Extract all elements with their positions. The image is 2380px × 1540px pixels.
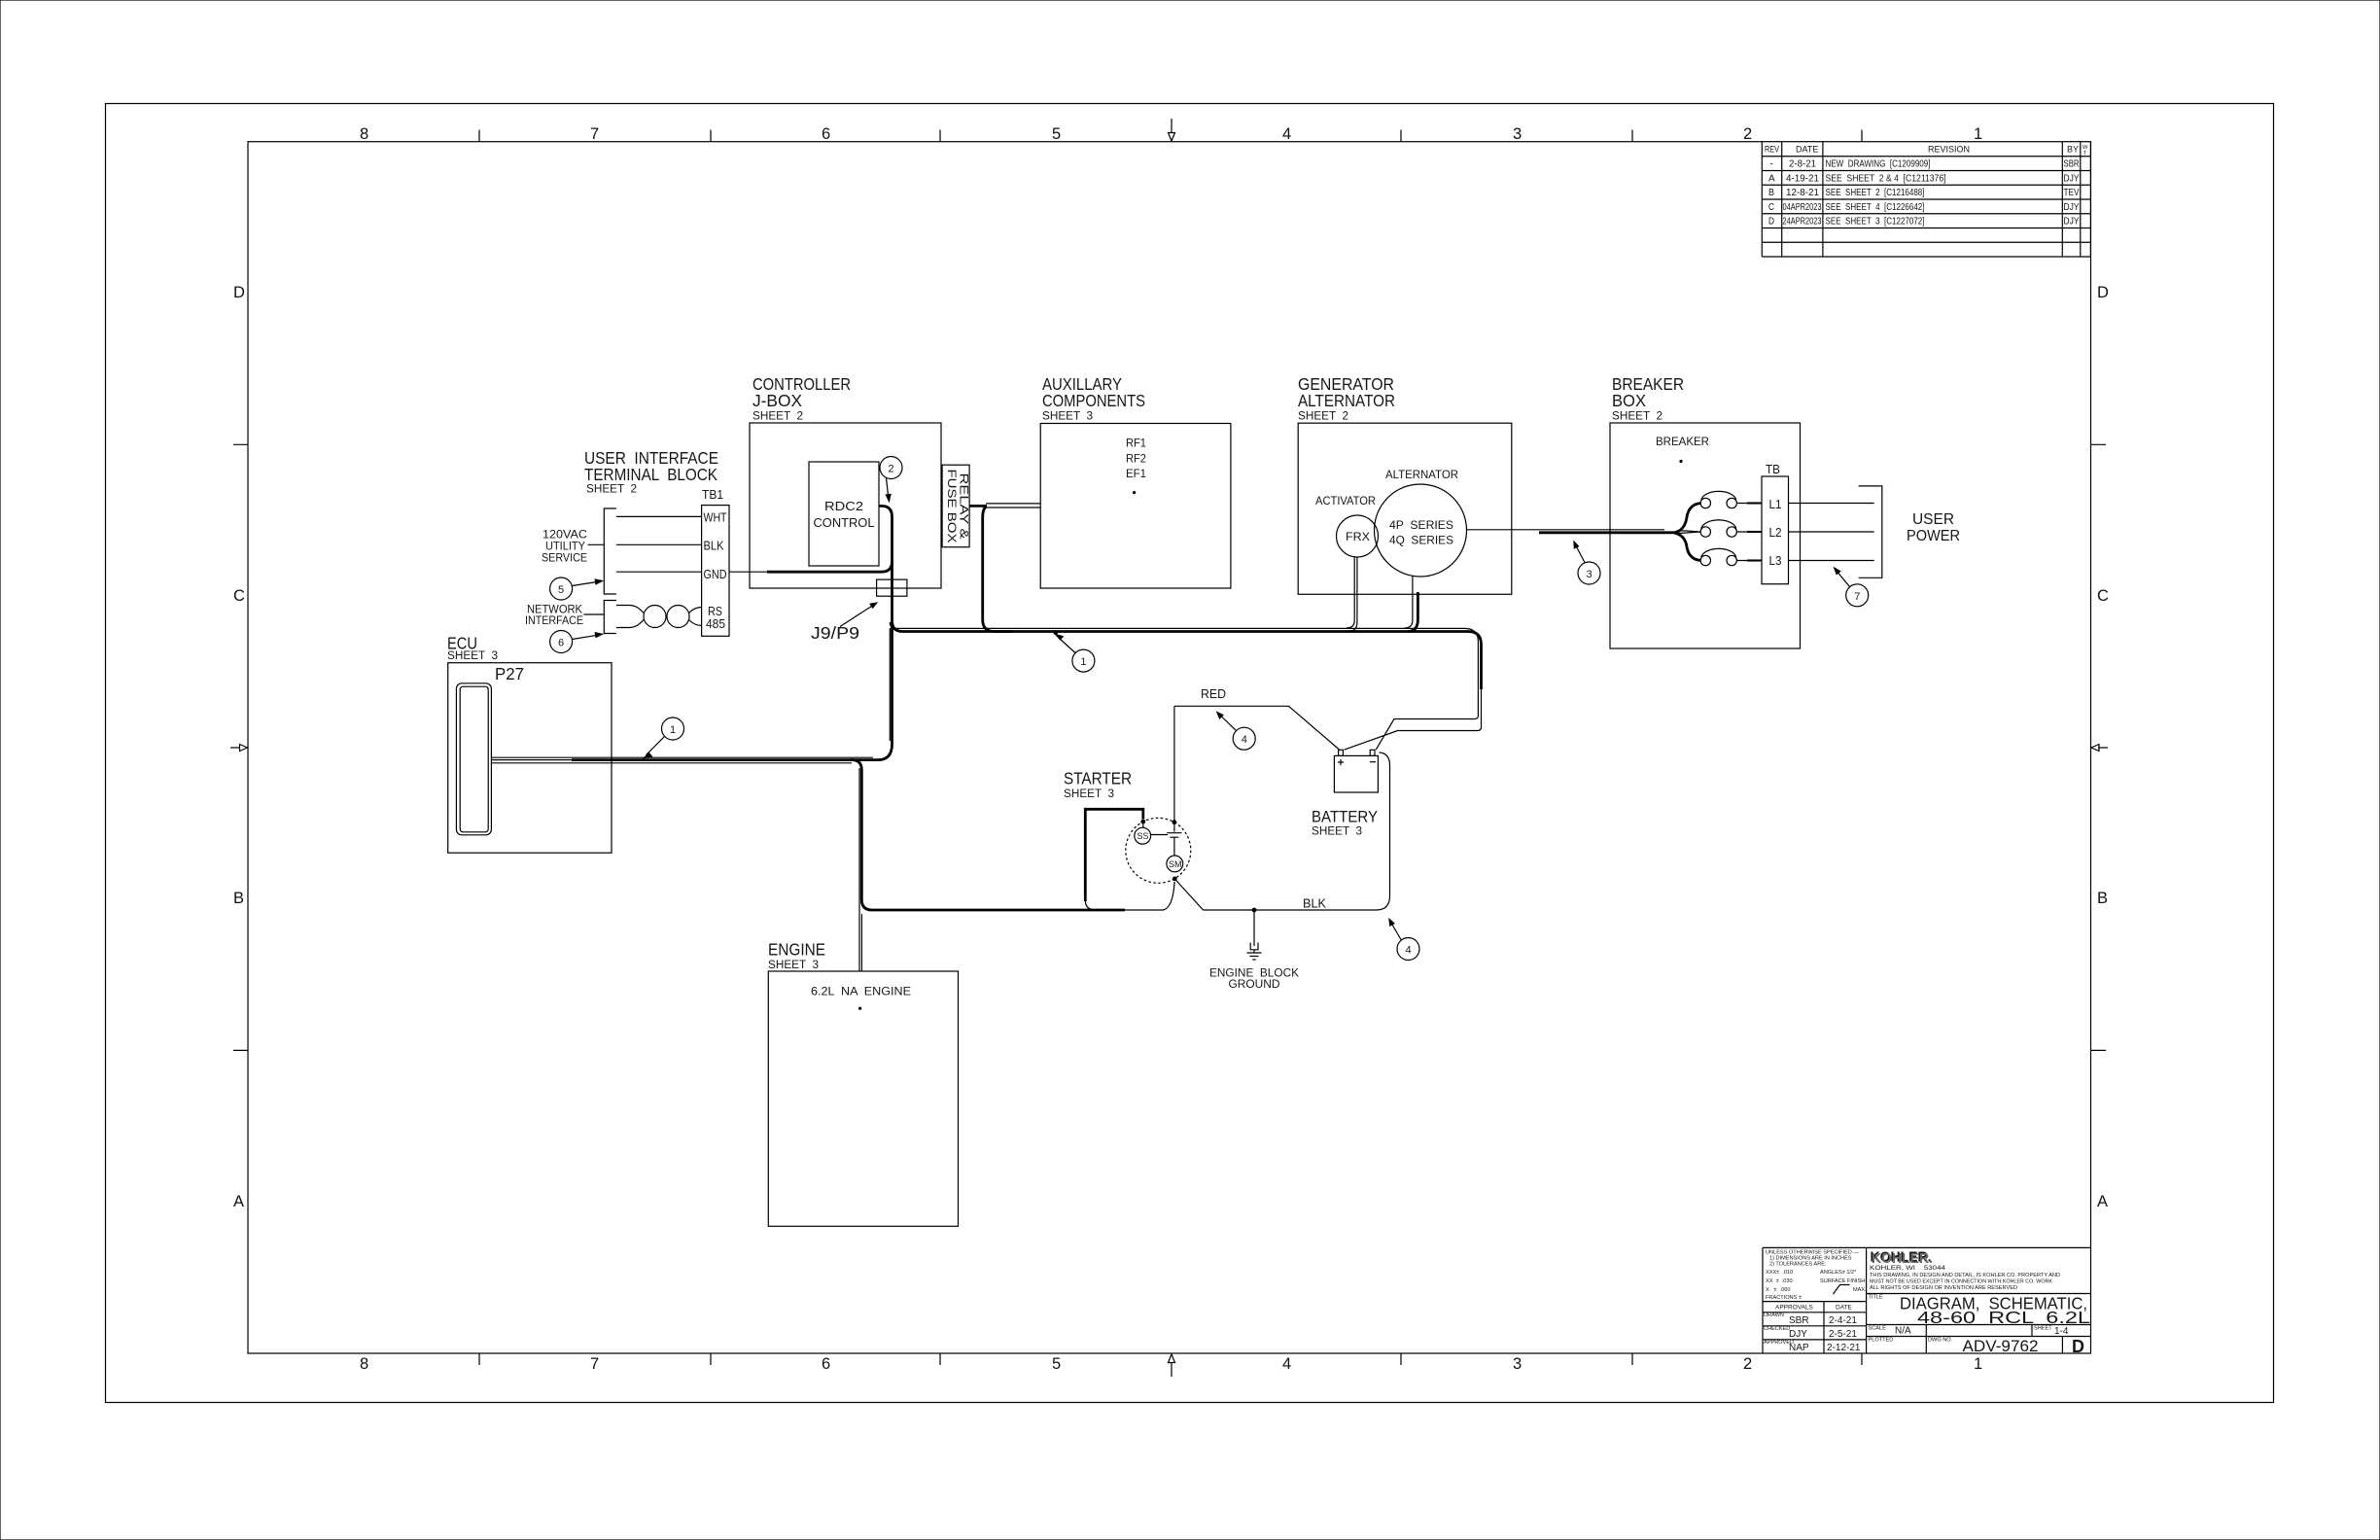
svg-text:6: 6	[558, 638, 564, 649]
wire ground drop	[1253, 910, 1255, 946]
svg-text:485: 485	[706, 617, 725, 631]
network cable bracket	[604, 601, 616, 634]
ECU label	[447, 634, 498, 662]
svg-text:BLK: BLK	[1303, 897, 1327, 911]
zone ticks left	[233, 444, 248, 1050]
wire RED horizontal	[1174, 706, 1340, 750]
svg-text:SCALE: SCALE	[1869, 1326, 1887, 1332]
breaker pole 3	[1700, 555, 1710, 565]
svg-text:12-8-21: 12-8-21	[1786, 188, 1819, 198]
SS terminal circle	[1135, 827, 1151, 844]
svg-text:J9/P9: J9/P9	[811, 623, 859, 643]
svg-text:SHEET 3: SHEET 3	[1312, 826, 1362, 838]
svg-text:ANGLES± 1/2°: ANGLES± 1/2°	[1820, 1270, 1856, 1276]
svg-text:SHEET 2: SHEET 2	[1298, 411, 1348, 423]
svg-text:ACTIVATOR: ACTIVATOR	[1315, 496, 1376, 507]
svg-text:L3: L3	[1769, 554, 1782, 568]
svg-text:3: 3	[1587, 569, 1592, 580]
wire alternator drop thin	[1405, 577, 1413, 628]
svg-text:SHEET 3: SHEET 3	[768, 960, 819, 971]
svg-text:SHEET 3: SHEET 3	[1064, 788, 1114, 800]
svg-text:SBR: SBR	[2064, 159, 2080, 170]
svg-text:SEE SHEET 3 [C1227072]: SEE SHEET 3 [C1227072]	[1826, 217, 1925, 227]
svg-text:D: D	[2072, 1337, 2084, 1356]
BATTERY	[1334, 755, 1378, 792]
svg-text:B: B	[2097, 890, 2108, 907]
controller J-box	[750, 423, 941, 588]
CONTROLLER J-BOX label	[752, 374, 851, 423]
ECU box	[448, 663, 612, 854]
svg-text:SEE SHEET 4 [C1226642]: SEE SHEET 4 [C1226642]	[1826, 202, 1925, 213]
svg-text:DWG NO.: DWG NO.	[1928, 1338, 1953, 1344]
center marker left	[230, 747, 240, 749]
svg-text:C: C	[233, 587, 245, 605]
svg-text:T: T	[2083, 151, 2087, 157]
svg-text:CHECKED: CHECKED	[1764, 1326, 1790, 1332]
inner border	[248, 142, 2091, 1353]
svg-text:GROUND: GROUND	[1229, 979, 1280, 991]
wire battery plus feed	[1345, 689, 1482, 750]
svg-text:L2: L2	[1769, 526, 1782, 540]
wire feeder fan to poles	[1674, 504, 1700, 533]
120VAC utility service label	[542, 530, 587, 565]
callout circle 7	[1846, 584, 1869, 607]
breaker dot	[1679, 460, 1682, 463]
svg-text:DJY: DJY	[1789, 1329, 1807, 1340]
wire engine drop pair	[859, 768, 861, 971]
svg-text:3: 3	[1513, 1355, 1522, 1373]
svg-text:2-8-21: 2-8-21	[1789, 159, 1816, 170]
junction dot solenoid top	[1172, 820, 1177, 824]
wire L3 out	[1789, 560, 1874, 562]
svg-text:C: C	[1768, 202, 1774, 213]
svg-text:D: D	[2097, 284, 2109, 301]
svg-text:DJY: DJY	[2064, 217, 2080, 227]
svg-text:4-19-21: 4-19-21	[1786, 173, 1819, 184]
svg-text:24APR2023: 24APR2023	[1783, 217, 1822, 227]
solenoid contact symbol	[1167, 822, 1181, 856]
svg-text:UTILITY: UTILITY	[545, 542, 585, 553]
wire harness thin companion	[896, 628, 1478, 750]
junction dot harness	[1053, 630, 1058, 635]
junction dot SS feed	[1140, 820, 1145, 824]
callout circle 2	[880, 457, 902, 479]
svg-text:A: A	[1768, 173, 1775, 184]
callout circle 1 (harness)	[1072, 649, 1095, 672]
svg-text:L1: L1	[1769, 498, 1782, 511]
svg-text:6: 6	[822, 1355, 830, 1373]
wire pole3 to TB	[1736, 560, 1762, 562]
svg-text:RF1: RF1	[1126, 438, 1146, 450]
svg-text:120VAC: 120VAC	[542, 530, 587, 542]
svg-text:REV: REV	[1765, 145, 1779, 155]
svg-text:SBR: SBR	[1789, 1315, 1809, 1326]
svg-text:B: B	[1768, 188, 1774, 198]
svg-text:ENGINE BLOCK: ENGINE BLOCK	[1209, 968, 1299, 980]
breaker box	[1610, 423, 1801, 648]
svg-text:POWER: POWER	[1907, 528, 1960, 544]
svg-text:5: 5	[558, 584, 564, 596]
svg-text:2-12-21: 2-12-21	[1827, 1343, 1861, 1353]
approvals text	[1764, 1305, 1853, 1347]
callout circle 3	[1578, 562, 1600, 584]
svg-text:NETWORK: NETWORK	[527, 605, 582, 616]
outer frame	[106, 104, 2274, 1403]
wire SS stub	[1142, 822, 1144, 827]
svg-text:TITLE: TITLE	[1869, 1295, 1883, 1301]
wire feeder thin pair to aux	[986, 504, 1040, 507]
svg-text:RS: RS	[708, 605, 722, 618]
svg-text:04APR2023: 04APR2023	[1783, 202, 1822, 213]
svg-text:C: C	[2097, 587, 2109, 605]
svg-text:WHT: WHT	[704, 511, 727, 525]
REVISION TABLE	[1762, 142, 2090, 257]
svg-text:2) TOLERANCES ARE:: 2) TOLERANCES ARE:	[1769, 1262, 1827, 1268]
junction dot ground	[1252, 908, 1257, 913]
user power bracket	[1859, 486, 1882, 577]
breaker pole 2	[1700, 527, 1710, 537]
wire GND	[616, 571, 702, 573]
zone ticks right	[2091, 444, 2107, 1050]
svg-text:2: 2	[889, 464, 894, 475]
BREAKER BOX label	[1612, 374, 1684, 423]
plus sign	[1338, 759, 1344, 765]
svg-text:SHEET 2: SHEET 2	[586, 484, 637, 496]
120VAC cable bracket	[604, 508, 616, 594]
120VAC label stub	[588, 543, 605, 545]
svg-text:48-60 RCL 6.2L: 48-60 RCL 6.2L	[1917, 1308, 2090, 1327]
svg-text:FUSE BOX: FUSE BOX	[945, 470, 957, 543]
svg-text:COMPONENTS: COMPONENTS	[1042, 391, 1145, 410]
svg-text:2: 2	[1743, 125, 1752, 143]
svg-text:RELAY &: RELAY &	[958, 473, 969, 540]
svg-text:5: 5	[1052, 125, 1061, 143]
wire alternator drop thick	[1408, 592, 1417, 632]
svg-text:RDC2: RDC2	[824, 500, 863, 513]
svg-text:6: 6	[822, 125, 830, 143]
starter solenoid circle (dashed)	[1126, 818, 1191, 883]
svg-text:TEV: TEV	[2064, 188, 2080, 198]
svg-text:3: 3	[1513, 125, 1522, 143]
battery minus post	[1370, 750, 1375, 755]
svg-text:ADV-9762: ADV-9762	[1963, 1337, 2039, 1355]
svg-text:4: 4	[1282, 125, 1291, 143]
BATTERY label	[1312, 809, 1378, 838]
svg-text:TB1: TB1	[702, 488, 723, 502]
svg-text:1: 1	[1974, 1355, 1982, 1373]
STARTER label	[1064, 769, 1132, 801]
junction dot solenoid bottom	[1172, 877, 1177, 882]
svg-text:4: 4	[1282, 1355, 1291, 1373]
svg-text:INTERFACE: INTERFACE	[525, 615, 583, 627]
revision table text	[1765, 145, 2088, 227]
svg-text:TB: TB	[1766, 463, 1780, 476]
wire relay box feeder thick	[969, 505, 987, 507]
AUXILLARY COMPONENTS label	[1042, 374, 1145, 423]
svg-text:REVISION: REVISION	[1928, 145, 1970, 155]
svg-text:PLOTTED: PLOTTED	[1869, 1338, 1894, 1344]
svg-text:ALTERNATOR: ALTERNATOR	[1385, 470, 1458, 481]
svg-text:DATE: DATE	[1796, 145, 1818, 155]
wire alternator output thin	[1467, 529, 1665, 531]
wire solenoid curve to BLK	[1164, 882, 1175, 910]
center marker right	[2098, 747, 2108, 749]
center marker bottom	[1171, 1363, 1172, 1377]
P27 connector	[456, 683, 491, 835]
svg-text:N/A: N/A	[1895, 1326, 1911, 1337]
svg-text:D: D	[1768, 217, 1774, 227]
breaker pole 1	[1700, 498, 1710, 507]
svg-text:FRX: FRX	[1346, 532, 1370, 543]
svg-text:X ± .060: X ± .060	[1766, 1287, 1790, 1293]
svg-text:ENGINE: ENGINE	[768, 940, 825, 960]
SM terminal circle	[1167, 856, 1183, 872]
svg-text:ALTERNATOR: ALTERNATOR	[1298, 391, 1395, 410]
zone ticks bottom	[479, 1353, 1862, 1365]
svg-text:J-BOX: J-BOX	[752, 391, 802, 410]
wire SM diagonal to BLK	[1174, 879, 1203, 910]
svg-text:4: 4	[1406, 945, 1412, 957]
svg-text:NAP: NAP	[1789, 1343, 1809, 1353]
wire thin starter run	[1125, 909, 1164, 911]
wire J9 vertical companion thin	[890, 622, 896, 741]
alternator circle	[1375, 484, 1467, 577]
svg-text:8: 8	[360, 125, 368, 143]
svg-text:4: 4	[1242, 734, 1247, 746]
svg-text:THIS DRAWING, IN DESIGN AND DE: THIS DRAWING, IN DESIGN AND DETAIL, IS K…	[1870, 1273, 2060, 1278]
svg-text:SURFACE FINISH: SURFACE FINISH	[1820, 1278, 1865, 1284]
TITLE BLOCK	[1763, 1247, 2090, 1353]
svg-text:1: 1	[1080, 656, 1086, 668]
svg-text:SHEET 3: SHEET 3	[1042, 411, 1093, 423]
svg-text:4Q SERIES: 4Q SERIES	[1389, 536, 1453, 547]
wire ECU run thick	[572, 760, 1125, 910]
wire harness main run	[903, 632, 1482, 690]
svg-text:SERVICE: SERVICE	[542, 553, 587, 565]
svg-text:B: B	[233, 890, 244, 907]
svg-text:ALL RIGHTS OF DESIGN OR INVENT: ALL RIGHTS OF DESIGN OR INVENTION ARE RE…	[1870, 1285, 2017, 1291]
center marker top	[1171, 119, 1172, 132]
svg-text:SHEET 3: SHEET 3	[447, 650, 498, 662]
svg-text:APPROVALS: APPROVALS	[1775, 1305, 1814, 1312]
svg-text:A: A	[2097, 1193, 2108, 1210]
wire starter feed thick L	[1085, 809, 1143, 901]
callout circle 6	[550, 631, 573, 653]
engine dot	[858, 1007, 861, 1010]
wire GND thick run to junction	[767, 562, 892, 573]
wire pole2 to TB	[1736, 531, 1762, 533]
RDC2 control box	[809, 462, 879, 566]
battery plus post	[1339, 750, 1344, 755]
svg-text:DJY: DJY	[2064, 202, 2080, 213]
svg-text:CONTROL: CONTROL	[814, 516, 875, 530]
svg-text:SHEET 2: SHEET 2	[752, 411, 803, 423]
svg-text:6.2L NA ENGINE: 6.2L NA ENGINE	[811, 987, 911, 998]
wire BLK run	[1204, 752, 1390, 910]
NETWORK INTERFACE label	[525, 605, 583, 628]
callout circle 5	[550, 577, 573, 600]
svg-text:7: 7	[1854, 591, 1860, 603]
wire ECU run companion	[491, 757, 873, 763]
svg-text:SEE SHEET 2 [C1216488]: SEE SHEET 2 [C1216488]	[1826, 188, 1925, 198]
svg-text:BATTERY: BATTERY	[1312, 809, 1378, 826]
GENERATOR ALTERNATOR label	[1298, 374, 1395, 423]
svg-text:MAX.: MAX.	[1853, 1287, 1867, 1293]
svg-text:DJY: DJY	[2064, 173, 2080, 184]
wire J9 vertical down to ECU harness (thick)	[850, 622, 892, 760]
svg-text:7: 7	[590, 125, 599, 143]
svg-text:DRAWN: DRAWN	[1764, 1312, 1784, 1318]
svg-text:4P SERIES: 4P SERIES	[1389, 520, 1453, 532]
engine box	[768, 971, 958, 1226]
svg-text:SS: SS	[1137, 831, 1149, 841]
wire GND thin from TB1	[729, 571, 767, 573]
svg-text:SHEET 2: SHEET 2	[1612, 411, 1662, 423]
wire L1 out	[1789, 503, 1874, 505]
svg-text:-: -	[1770, 159, 1773, 170]
svg-text:2: 2	[1743, 1355, 1752, 1373]
wire FRX drop pair	[1347, 557, 1357, 631]
wire RDC2 to J9 vertical (thick)	[879, 506, 903, 631]
svg-text:2-5-21: 2-5-21	[1829, 1329, 1857, 1340]
svg-text:8: 8	[360, 1355, 368, 1373]
callout circle 1 (ECU wire)	[662, 717, 684, 740]
svg-text:SM: SM	[1169, 859, 1182, 869]
USER INTERFACE TERMINAL BLOCK label	[584, 448, 718, 496]
aux dot	[1133, 491, 1136, 494]
svg-text:P27: P27	[495, 664, 524, 683]
engine block ground symbol	[1247, 943, 1262, 961]
auxillary components box	[1040, 424, 1231, 589]
svg-text:7: 7	[590, 1355, 599, 1373]
svg-text:D: D	[233, 284, 245, 301]
wire relay branch down to harness	[983, 507, 1013, 632]
tolerance note text	[1766, 1250, 1867, 1302]
activator FRX circle	[1337, 515, 1379, 557]
svg-text:GND: GND	[704, 568, 727, 581]
svg-text:FRACTIONS ±: FRACTIONS ±	[1766, 1295, 1802, 1301]
svg-text:SEE SHEET 2 & 4 [C1211376]: SEE SHEET 2 & 4 [C1211376]	[1826, 173, 1946, 184]
zone ticks top	[479, 130, 1862, 142]
svg-text:TERMINAL BLOCK: TERMINAL BLOCK	[584, 465, 717, 484]
network label stub	[584, 613, 605, 615]
svg-text:1-4: 1-4	[2054, 1326, 2069, 1337]
ENGINE label	[768, 940, 825, 972]
callout circle 4 (RED)	[1233, 727, 1255, 750]
svg-text:5: 5	[1052, 1355, 1061, 1373]
terminal block TB1	[702, 488, 729, 636]
svg-text:EF1: EF1	[1126, 469, 1146, 480]
svg-text:RED: RED	[1201, 687, 1226, 701]
svg-text:USER: USER	[1912, 511, 1954, 528]
svg-text:NEW DRAWING [C1209909]: NEW DRAWING [C1209909]	[1826, 159, 1931, 170]
svg-text:KOHLER, WI 53044: KOHLER, WI 53044	[1870, 1265, 1945, 1272]
wire WHT	[616, 515, 702, 517]
svg-text:MUST NOT BE USED EXCEPT IN CON: MUST NOT BE USED EXCEPT IN CONNECTION WI…	[1870, 1279, 2052, 1285]
wire BLK	[616, 543, 702, 545]
wire L2 out	[1789, 531, 1874, 533]
callout circle 4 (BLK)	[1397, 938, 1419, 961]
svg-text:2-4-21: 2-4-21	[1829, 1315, 1857, 1326]
J9/P9 connector	[877, 579, 907, 596]
twisted pair RS485	[616, 606, 702, 628]
svg-text:DATE: DATE	[1836, 1305, 1853, 1312]
wire alternator output thick	[1539, 531, 1675, 534]
generator alternator box	[1298, 423, 1512, 594]
svg-text:BLK: BLK	[704, 540, 725, 553]
svg-text:BY: BY	[2067, 145, 2079, 155]
svg-text:RF2: RF2	[1126, 454, 1146, 466]
svg-text:BOX: BOX	[1612, 391, 1646, 410]
wire pole1 to TB	[1736, 503, 1762, 505]
svg-text:BREAKER: BREAKER	[1656, 437, 1709, 448]
svg-text:XX ± .030: XX ± .030	[1766, 1278, 1793, 1284]
TB terminal box	[1762, 476, 1789, 584]
svg-text:A: A	[233, 1193, 244, 1210]
svg-text:1: 1	[670, 724, 676, 736]
svg-text:XXX± .010: XXX± .010	[1766, 1270, 1793, 1276]
wire SS to contact	[1151, 834, 1168, 836]
wire RED vertical	[1173, 706, 1175, 822]
minus sign	[1370, 761, 1376, 763]
wire ECU run thin	[491, 759, 572, 761]
svg-text:STARTER: STARTER	[1064, 769, 1132, 788]
relay and fuse box	[942, 465, 969, 547]
svg-text:1: 1	[1974, 125, 1982, 143]
